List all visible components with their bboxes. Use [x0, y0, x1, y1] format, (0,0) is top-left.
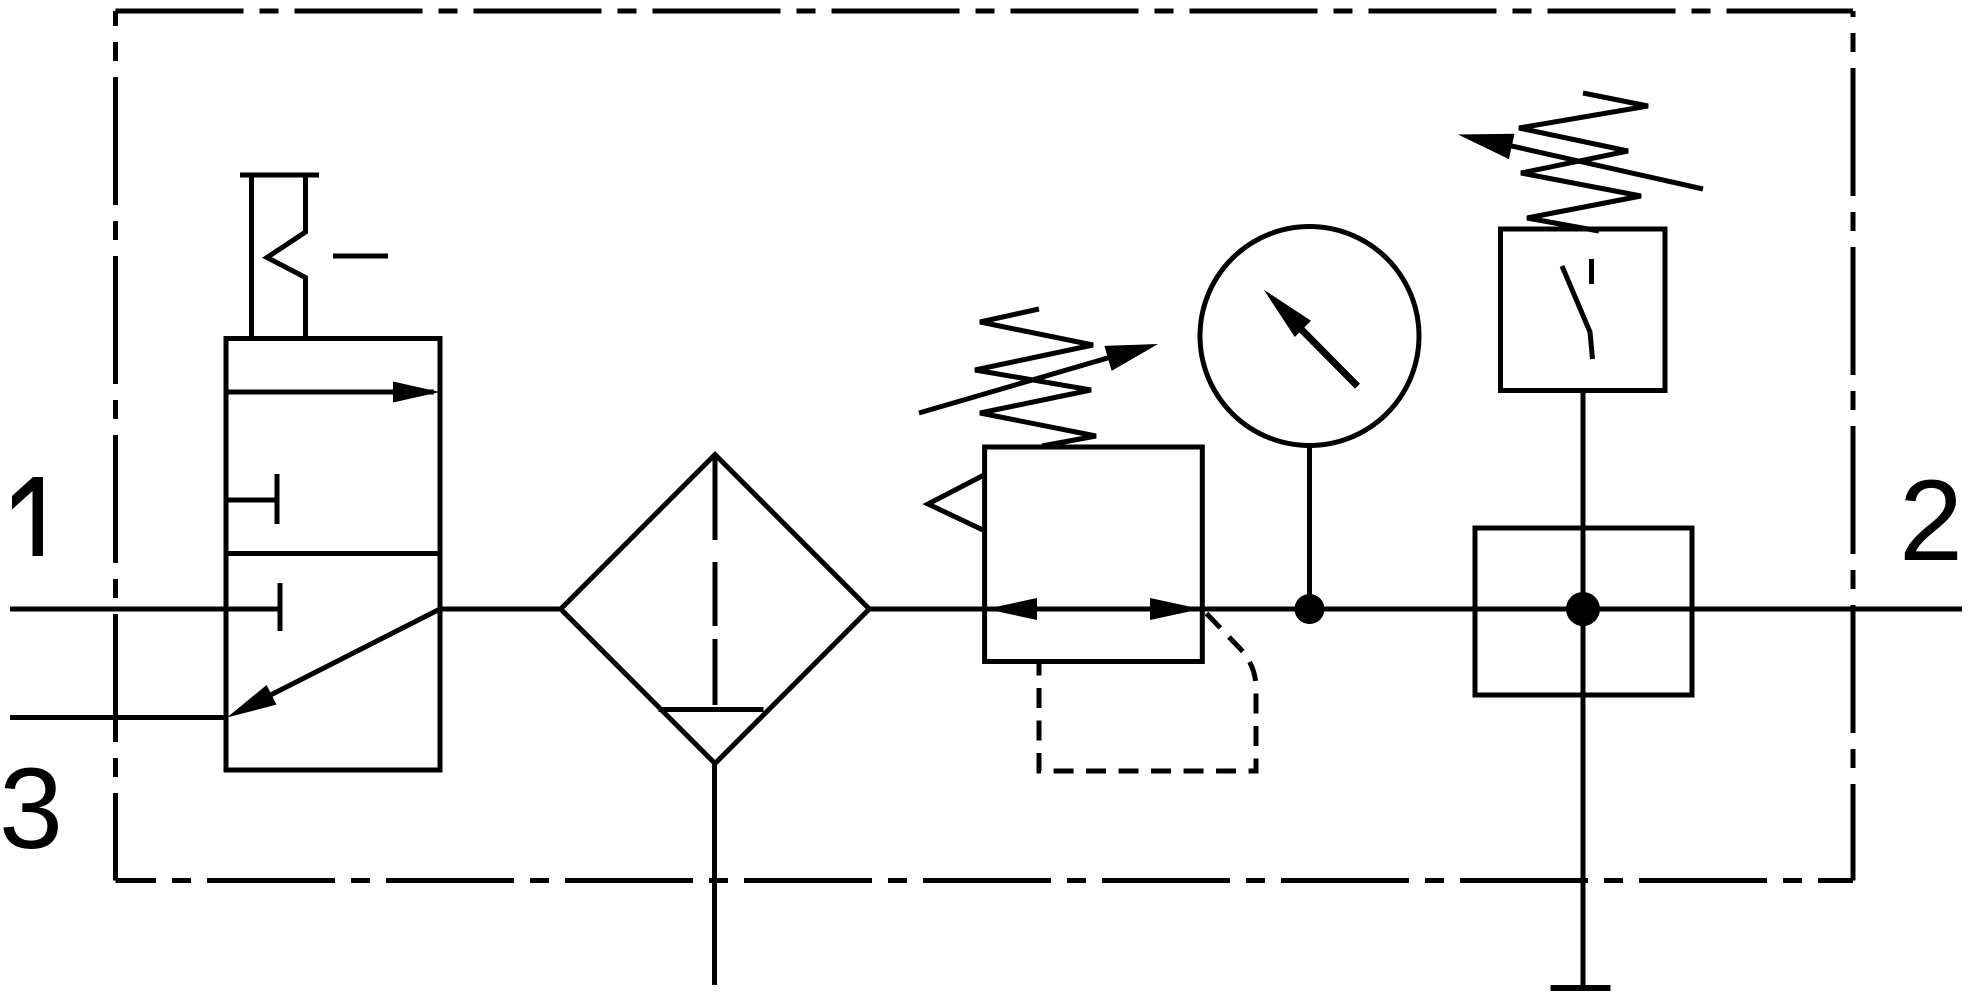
valve V1 bottom position blocked port T [278, 583, 283, 631]
pressure switch S1 body [1501, 229, 1666, 391]
valve V1 position divider [226, 551, 440, 556]
regulator R1 pilot dashed line [1039, 614, 1256, 772]
valve V1 exhaust diagonal arrow [252, 609, 440, 705]
regulator R1 flow arrowheads [986, 598, 1037, 620]
filter F1 diamond body [561, 455, 870, 764]
node switch junction [1566, 592, 1600, 626]
enclosure dash-dot border [116, 11, 1854, 881]
filter F1 drain line [712, 762, 717, 985]
valve V1 body [226, 339, 440, 771]
wire port 3 line [10, 715, 226, 720]
vent end bar [1551, 985, 1611, 991]
filter F1 element dashed line [713, 456, 718, 708]
svg-text:2: 2 [1899, 457, 1963, 585]
regulator R1 relief chevron [928, 475, 984, 531]
pressure switch S1 contact [1589, 259, 1594, 284]
gauge G1 needle [1295, 323, 1358, 386]
regulator R1 body [985, 447, 1203, 662]
node gauge junction [1295, 594, 1325, 624]
regulator R1 adjustment arrow [919, 350, 1135, 413]
filter F1 condensate separator line [659, 707, 764, 712]
wire main line valve to filter [440, 607, 562, 612]
gauge G1 dial circle [1200, 227, 1419, 446]
gauge G1 stem [1307, 446, 1312, 609]
wire main line filter to port 2 [869, 607, 1962, 612]
regulator R1 adjustment spring [975, 309, 1096, 446]
wire port 1 line [10, 607, 280, 612]
port label 1 [12, 477, 43, 556]
valve V1 top position blocked port T [226, 474, 277, 524]
valve V1 top position flow arrow [226, 390, 434, 395]
svg-text:3: 3 [0, 745, 63, 873]
pressure switch S1 sensing line [1581, 390, 1586, 988]
pressure switch S1 tapping block [1475, 528, 1692, 695]
valve V1 manual detent actuator [240, 173, 319, 178]
pressure switch S1 spring [1519, 93, 1648, 231]
pressure switch S1 adjustment arrow [1485, 140, 1703, 189]
